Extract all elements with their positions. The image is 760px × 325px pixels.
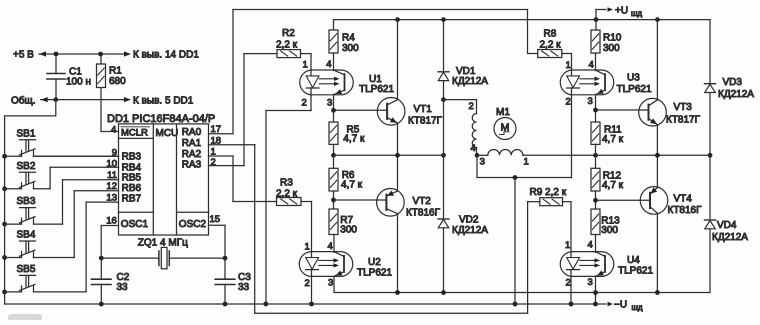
svg-text:4: 4 <box>326 59 331 70</box>
svg-text:2: 2 <box>469 101 474 112</box>
svg-text:100 н: 100 н <box>66 77 91 88</box>
svg-text:R2: R2 <box>282 28 295 39</box>
svg-text:4: 4 <box>328 241 333 252</box>
svg-text:VT1: VT1 <box>414 104 433 115</box>
svg-text:2: 2 <box>305 278 310 289</box>
svg-text:1: 1 <box>566 60 571 71</box>
svg-text:КД212А: КД212А <box>718 89 754 100</box>
svg-text:3: 3 <box>328 278 333 289</box>
svg-text:SB4: SB4 <box>17 230 36 241</box>
svg-text:2,2 к: 2,2 к <box>276 189 298 200</box>
svg-text:3: 3 <box>588 96 593 107</box>
svg-text:SB2: SB2 <box>17 161 36 172</box>
svg-text:4: 4 <box>588 239 593 250</box>
svg-text:RA0: RA0 <box>182 127 202 138</box>
svg-text:300: 300 <box>342 43 359 54</box>
svg-text:SB3: SB3 <box>17 196 36 207</box>
svg-text:300: 300 <box>603 43 620 54</box>
svg-text:4,7 к: 4,7 к <box>602 134 624 145</box>
svg-text:R3: R3 <box>280 178 293 189</box>
svg-text:М1: М1 <box>496 107 510 118</box>
svg-text:VD3: VD3 <box>723 77 743 88</box>
svg-text:КД212А: КД212А <box>452 76 488 87</box>
svg-text:U4: U4 <box>627 255 640 266</box>
svg-text:MCU: MCU <box>156 128 179 139</box>
svg-text:RA2: RA2 <box>182 149 202 160</box>
svg-text:Общ.: Общ. <box>11 95 36 107</box>
svg-text:КД212А: КД212А <box>712 232 748 243</box>
svg-text:VD4: VD4 <box>717 220 737 231</box>
svg-text:11: 11 <box>107 170 117 181</box>
svg-text:−U: −U <box>614 300 627 311</box>
svg-text:2: 2 <box>302 98 307 109</box>
svg-text:U3: U3 <box>627 73 640 84</box>
svg-text:ZQ1 4 МГц: ZQ1 4 МГц <box>138 237 188 248</box>
svg-text:2: 2 <box>566 278 571 289</box>
svg-text:КД212А: КД212А <box>452 225 488 236</box>
svg-text:2,2 к: 2,2 к <box>540 40 562 51</box>
svg-text:шд: шд <box>631 9 642 18</box>
svg-text:КТ816Г: КТ816Г <box>668 205 703 216</box>
svg-text:TLP621: TLP621 <box>618 266 653 277</box>
svg-text:DD1 PIC16F84A-04/P: DD1 PIC16F84A-04/P <box>107 113 215 125</box>
svg-text:15: 15 <box>210 214 221 225</box>
svg-text:+U: +U <box>615 6 628 17</box>
svg-text:КТ816Г: КТ816Г <box>406 208 441 219</box>
svg-text:+5 В: +5 В <box>13 50 34 61</box>
svg-text:4,7 к: 4,7 к <box>343 134 365 145</box>
svg-text:OSC1: OSC1 <box>121 219 149 230</box>
svg-text:R1: R1 <box>109 66 122 77</box>
svg-text:SB1: SB1 <box>17 128 36 139</box>
svg-text:OSC2: OSC2 <box>179 219 207 230</box>
svg-text:33: 33 <box>117 282 129 293</box>
svg-text:RA3: RA3 <box>182 160 202 171</box>
svg-text:4,7 к: 4,7 к <box>341 180 363 191</box>
svg-text:VT4: VT4 <box>674 194 693 205</box>
svg-text:TLP621: TLP621 <box>617 84 652 95</box>
svg-text:300: 300 <box>601 225 618 236</box>
svg-text:1: 1 <box>305 242 310 253</box>
svg-text:4: 4 <box>111 125 116 136</box>
svg-text:TLP621: TLP621 <box>357 268 392 279</box>
svg-text:3: 3 <box>327 98 332 109</box>
svg-text:КТ817Г: КТ817Г <box>666 115 701 126</box>
svg-text:R10: R10 <box>603 33 622 44</box>
svg-text:К выв. 14 DD1: К выв. 14 DD1 <box>133 50 199 61</box>
svg-text:1: 1 <box>524 157 529 168</box>
svg-text:SB5: SB5 <box>17 264 36 275</box>
svg-text:1: 1 <box>303 60 308 71</box>
svg-text:VT2: VT2 <box>413 196 432 207</box>
svg-text:RB6: RB6 <box>122 183 142 194</box>
svg-text:R9 2,2 к: R9 2,2 к <box>530 187 567 198</box>
svg-text:MCLR: MCLR <box>121 128 148 139</box>
svg-text:16: 16 <box>106 216 117 227</box>
svg-text:U2: U2 <box>368 257 381 268</box>
svg-text:R8: R8 <box>544 29 557 40</box>
svg-text:680: 680 <box>109 76 126 87</box>
svg-text:2,2 к: 2,2 к <box>276 40 298 51</box>
svg-text:4: 4 <box>471 143 476 154</box>
svg-text:1: 1 <box>565 240 570 251</box>
svg-text:К выв. 5 DD1: К выв. 5 DD1 <box>133 96 194 107</box>
svg-text:VD2: VD2 <box>459 215 479 226</box>
svg-text:КТ817Г: КТ817Г <box>408 116 443 127</box>
svg-text:3: 3 <box>480 157 485 168</box>
svg-text:шд: шд <box>632 303 643 312</box>
svg-text:4: 4 <box>589 60 594 71</box>
svg-text:RA1: RA1 <box>182 138 202 149</box>
svg-text:2: 2 <box>566 97 571 108</box>
svg-text:VT3: VT3 <box>674 102 693 113</box>
svg-text:RB7: RB7 <box>122 193 142 204</box>
svg-text:300: 300 <box>340 225 357 236</box>
svg-text:33: 33 <box>238 282 250 293</box>
svg-text:3: 3 <box>588 277 593 288</box>
svg-text:TLP621: TLP621 <box>359 84 394 95</box>
svg-text:R4: R4 <box>342 33 355 44</box>
svg-text:4,7 к: 4,7 к <box>602 180 624 191</box>
svg-text:RB3: RB3 <box>122 152 142 163</box>
